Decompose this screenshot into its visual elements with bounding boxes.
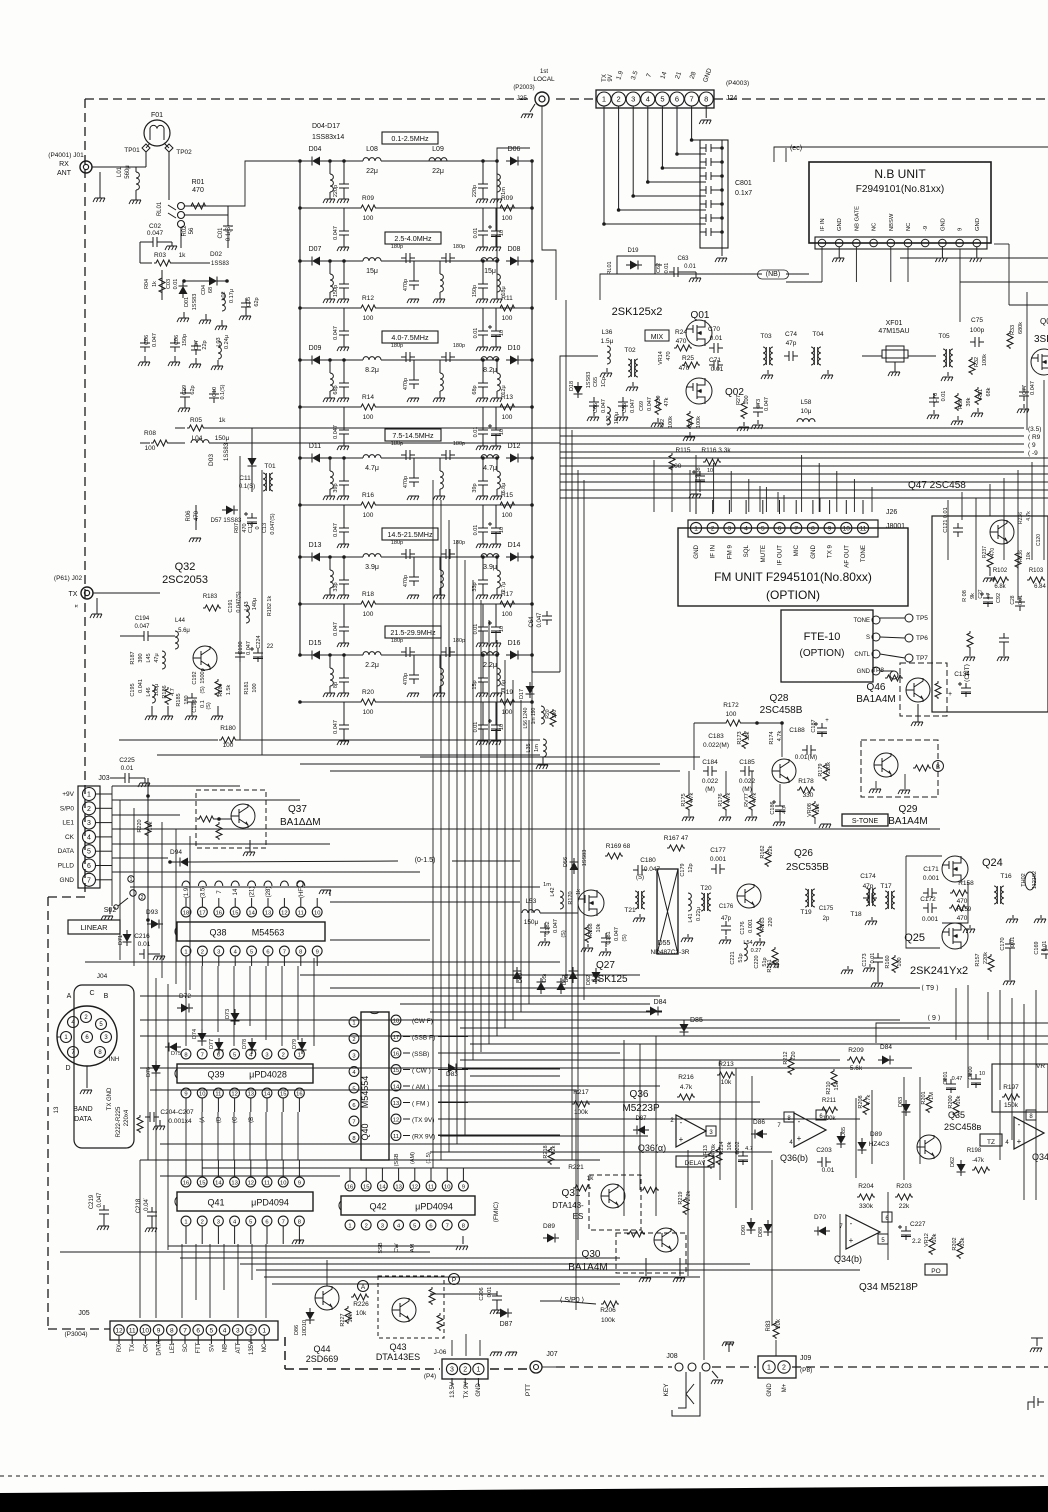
svg-text:0.01: 0.01 [173, 279, 179, 290]
svg-text:C92: C92 [996, 593, 1002, 603]
svg-text:0.047: 0.047 [647, 397, 653, 411]
svg-text:( -9: ( -9 [1028, 450, 1038, 457]
svg-text:0.022: 0.022 [739, 778, 756, 785]
svg-text:SQL: SQL [743, 544, 750, 557]
svg-text:0.047: 0.047 [601, 399, 607, 413]
wire right side verticals upper [947, 500, 949, 560]
svg-text:IF IN: IF IN [710, 545, 717, 558]
inductor series left 4.7μ [363, 455, 381, 458]
svg-text:1SS83: 1SS83 [224, 442, 230, 461]
svg-text:15: 15 [363, 1185, 369, 1191]
Q29 dashed box [861, 740, 938, 797]
wire filter row [300, 160, 308, 162]
svg-text:4: 4 [646, 95, 650, 104]
svg-text:8: 8 [298, 1220, 301, 1226]
svg-text:0.01: 0.01 [1018, 595, 1024, 605]
svg-text:FTE-10: FTE-10 [804, 631, 841, 643]
svg-text:0.047: 0.047 [333, 326, 339, 340]
svg-text:C220: C220 [754, 955, 760, 968]
filter band label box 0.1-2.5MHz [382, 132, 438, 144]
svg-text:D09: D09 [309, 345, 322, 352]
svg-text:10: 10 [280, 1181, 286, 1187]
svg-text:J8001: J8001 [886, 523, 905, 530]
svg-text:C74: C74 [785, 331, 797, 338]
svg-text:2SD669: 2SD669 [306, 1354, 339, 1364]
svg-text:9: 9 [316, 950, 319, 956]
svg-text:330k: 330k [859, 1203, 874, 1210]
svg-text:CK: CK [65, 834, 75, 841]
svg-text:100: 100 [502, 215, 513, 222]
wire Q39 outputs down [185, 1112, 187, 1160]
svg-text:(S): (S) [200, 686, 206, 694]
grounds IF strip [544, 938, 546, 941]
svg-text:4: 4 [744, 526, 748, 533]
svg-text:C12: C12 [248, 523, 254, 533]
svg-text:R167 47: R167 47 [664, 835, 689, 842]
svg-text:180p: 180p [391, 441, 403, 447]
svg-text:R14: R14 [362, 394, 374, 401]
svg-text:R13: R13 [501, 394, 513, 401]
svg-text:4.7μ: 4.7μ [365, 465, 379, 472]
ground stub right edge [1031, 1338, 1043, 1346]
svg-text:R179: R179 [818, 763, 824, 776]
svg-text:TP6: TP6 [916, 635, 928, 642]
svg-text:22k: 22k [899, 1203, 910, 1210]
svg-text:C75: C75 [971, 317, 983, 324]
wire filter row [300, 260, 308, 262]
svg-text:(ec): (ec) [790, 145, 802, 152]
svg-text:R182 1k: R182 1k [267, 596, 273, 617]
svg-text:R206: R206 [600, 1307, 616, 1314]
svg-text:5: 5 [233, 1053, 236, 1059]
svg-text:NB GATE: NB GATE [854, 206, 860, 231]
transistor Q44 2SD669 [315, 1286, 339, 1310]
svg-text:LE1: LE1 [62, 820, 74, 827]
capacitor series 1 [401, 352, 415, 362]
svg-text:R115: R115 [675, 447, 690, 454]
TZ box [980, 1134, 1002, 1146]
FET Q24 [942, 856, 968, 882]
svg-text:150p: 150p [182, 334, 188, 346]
svg-text:150p: 150p [333, 285, 339, 297]
wire below R180 [157, 754, 540, 756]
svg-text:(S): (S) [636, 875, 644, 881]
svg-text:R219: R219 [678, 1191, 684, 1204]
svg-text:Q32: Q32 [175, 561, 196, 573]
svg-text:R12: R12 [362, 295, 374, 302]
svg-text:TP02: TP02 [176, 149, 192, 156]
svg-text:0.01: 0.01 [138, 941, 151, 948]
svg-text:BA1A4M: BA1A4M [856, 694, 895, 705]
svg-text:Q25: Q25 [904, 932, 925, 944]
wire horizontal bundle low [460, 1059, 840, 1061]
svg-text:8: 8 [170, 1328, 174, 1335]
svg-text:100: 100 [363, 512, 374, 519]
svg-text:R236: R236 [1018, 550, 1024, 562]
svg-text:0.01: 0.01 [473, 525, 479, 536]
svg-text:470: 470 [990, 548, 996, 557]
svg-text:0.022(M): 0.022(M) [703, 742, 729, 749]
svg-text:(P61) J02: (P61) J02 [54, 575, 83, 582]
svg-text:⟨D: ⟨D [215, 1116, 222, 1123]
svg-text:PTT: PTT [525, 1384, 532, 1396]
svg-text:330: 330 [803, 792, 814, 799]
svg-text:C134: C134 [954, 671, 970, 678]
svg-text:Q41: Q41 [207, 1198, 224, 1208]
Q29 right resistor [913, 765, 931, 771]
IC Q41 uPD4094 [177, 1192, 313, 1211]
svg-text:(OPTION): (OPTION) [766, 588, 820, 602]
svg-text:R116 3.3k: R116 3.3k [701, 447, 731, 454]
svg-text:( R9: ( R9 [1028, 434, 1041, 441]
connector J07 PTT [530, 1361, 542, 1373]
transistor Q28 [772, 759, 796, 783]
svg-text:R02: R02 [182, 225, 188, 237]
svg-text:( CW ): ( CW ) [412, 1068, 431, 1075]
svg-text:12: 12 [393, 1118, 399, 1124]
svg-text:BAND: BAND [73, 1106, 92, 1113]
ground Q38 pin10 [329, 890, 331, 896]
svg-text:C69: C69 [639, 401, 645, 411]
svg-text:C224: C224 [256, 635, 262, 648]
svg-text:R07: R07 [234, 523, 240, 533]
svg-text:C188: C188 [789, 727, 805, 734]
capacitor array C801 0.1x7 [700, 140, 728, 248]
svg-text:C225: C225 [119, 757, 135, 764]
svg-text:1: 1 [87, 792, 91, 799]
svg-text:1k: 1k [576, 889, 582, 895]
svg-text:D88: D88 [758, 1227, 764, 1237]
svg-text:R157: R157 [975, 953, 981, 966]
svg-text:1m: 1m [543, 882, 551, 888]
svg-text:2: 2 [201, 950, 204, 956]
svg-text:FM 9: FM 9 [726, 544, 733, 559]
svg-text:13: 13 [231, 1181, 237, 1187]
transistor Q26 [737, 884, 761, 908]
svg-text:8: 8 [299, 950, 302, 956]
svg-text:C05: C05 [246, 297, 252, 307]
svg-text:C70: C70 [708, 326, 720, 333]
svg-text:R174: R174 [769, 731, 775, 744]
svg-text:0.01: 0.01 [473, 624, 479, 635]
svg-text:10: 10 [707, 468, 713, 474]
IC Q39 top pins [181, 1049, 191, 1059]
svg-text:R15: R15 [501, 492, 513, 499]
svg-text:3: 3 [631, 95, 635, 104]
svg-text:PLLD: PLLD [58, 863, 75, 870]
svg-text:(1.5): (1.5) [426, 1152, 432, 1163]
svg-text:D04: D04 [309, 146, 322, 153]
svg-text:Q34: Q34 [1032, 1152, 1048, 1162]
svg-text:(28): (28) [266, 887, 272, 898]
svg-text:TP01: TP01 [124, 147, 140, 154]
wire bus group below mixer to FM unit [560, 457, 1048, 459]
ground S02 [109, 908, 111, 914]
svg-text:+: + [679, 1135, 684, 1144]
wire filter output to Q27 [531, 672, 533, 913]
svg-text:2: 2 [249, 1328, 253, 1335]
svg-text:18: 18 [183, 911, 189, 917]
shunt capacitor right [478, 575, 488, 589]
svg-text:T16: T16 [1000, 873, 1012, 880]
svg-text:1: 1 [184, 950, 187, 956]
svg-text:15μ: 15μ [484, 268, 496, 275]
svg-text:J08: J08 [666, 1353, 677, 1360]
svg-text:L01: L01 [117, 166, 123, 177]
inductor series left 3.9μ [363, 554, 381, 557]
svg-text:9V: 9V [608, 74, 614, 81]
svg-text:C204-C207: C204-C207 [160, 1109, 194, 1116]
shunt inductor right L24 [497, 471, 500, 489]
S-TONE box [842, 814, 888, 826]
svg-text:1: 1 [476, 1367, 480, 1374]
wire NB top feed [774, 147, 1048, 162]
svg-text:1SS83: 1SS83 [586, 372, 592, 389]
svg-text:Q40: Q40 [360, 1123, 370, 1140]
svg-text:D79: D79 [292, 1039, 298, 1049]
svg-text:10: 10 [979, 1071, 985, 1077]
svg-text:Q29: Q29 [899, 804, 918, 815]
wire bias rail to left section [205, 427, 560, 429]
svg-text:J-06: J-06 [434, 1349, 447, 1356]
shunt cap mid [409, 276, 419, 290]
shunt capacitor left C22 [339, 279, 349, 293]
svg-text:R04: R04 [144, 279, 150, 289]
svg-text:Q43: Q43 [389, 1342, 406, 1352]
IC Q42 top pins [345, 1181, 355, 1191]
svg-text:8: 8 [811, 526, 815, 533]
svg-text:2.5-4.0MHz: 2.5-4.0MHz [394, 234, 432, 243]
wire NB unit pin drops [821, 247, 823, 282]
svg-text:GND: GND [837, 218, 843, 231]
svg-text:R 08: R 08 [962, 590, 968, 602]
svg-text:0.001: 0.001 [922, 916, 939, 923]
svg-text:5: 5 [210, 1328, 214, 1335]
svg-text:R212: R212 [783, 1051, 789, 1064]
svg-text:ANT: ANT [57, 170, 72, 177]
svg-text:100: 100 [502, 512, 513, 519]
svg-text:L41: L41 [688, 913, 694, 922]
svg-text:(AM): (AM) [410, 1152, 416, 1164]
svg-text:8: 8 [352, 1136, 355, 1142]
svg-text:C200: C200 [968, 1066, 974, 1079]
svg-text:Q24: Q24 [982, 857, 1003, 869]
svg-text:Q27: Q27 [596, 960, 615, 971]
svg-text:ND487C2-3R: ND487C2-3R [650, 949, 689, 956]
capacitor series 2 [441, 647, 455, 657]
svg-text:2SC458B: 2SC458B [760, 705, 803, 716]
ground C63 [683, 271, 696, 273]
svg-text:R236: R236 [1018, 512, 1024, 524]
svg-text:MIX: MIX [651, 334, 664, 341]
svg-text:J07: J07 [546, 1351, 557, 1358]
svg-text:TX: TX [69, 591, 78, 598]
svg-text:TP7: TP7 [916, 655, 928, 662]
svg-text:7: 7 [446, 1224, 449, 1230]
ground C204 [159, 1120, 161, 1126]
svg-text:100: 100 [502, 709, 513, 716]
svg-text:3.9μ: 3.9μ [365, 564, 379, 571]
svg-text:0.047: 0.047 [764, 397, 770, 411]
svg-text:0.001x4: 0.001x4 [168, 1118, 192, 1125]
svg-text:D73: D73 [225, 1009, 231, 1019]
svg-text:56: 56 [189, 227, 195, 234]
wire Q28 bias rail [694, 722, 724, 724]
shunt cap mid [409, 473, 419, 487]
ground at J02 [96, 598, 98, 614]
svg-text:8.2μ: 8.2μ [483, 367, 497, 374]
capacitor series 1 [401, 647, 415, 657]
svg-text:R09: R09 [501, 195, 513, 202]
svg-text:D08: D08 [508, 246, 521, 253]
svg-text:100: 100 [363, 414, 374, 421]
FET Q02 [686, 378, 712, 404]
wire bottom horizontal bundle [168, 1245, 460, 1247]
wire S/P0 line [540, 1301, 596, 1304]
svg-text:0.001: 0.001 [710, 856, 727, 863]
svg-text:C227: C227 [910, 1221, 926, 1228]
svg-text:C185: C185 [739, 759, 755, 766]
svg-text:KEY: KEY [663, 1383, 670, 1397]
svg-text:NC: NC [906, 223, 912, 231]
svg-text:12: 12 [115, 1328, 123, 1335]
svg-text:Q37: Q37 [288, 804, 307, 815]
svg-text:470k: 470k [711, 1144, 717, 1156]
svg-text:J25: J25 [517, 95, 528, 102]
svg-text:D02: D02 [210, 251, 222, 258]
svg-text:R175: R175 [681, 793, 687, 806]
svg-text:C186: C186 [770, 801, 776, 814]
svg-text:17: 17 [199, 911, 205, 917]
svg-text:Q28: Q28 [770, 693, 789, 704]
svg-text:CNTL: CNTL [854, 652, 870, 658]
svg-text:R20: R20 [362, 689, 374, 696]
mixer D55 ND487C2-3R [657, 869, 678, 954]
svg-text:0.1x7: 0.1x7 [735, 190, 752, 197]
svg-text:0.17μ: 0.17μ [229, 289, 235, 303]
svg-text:Q46: Q46 [867, 682, 886, 693]
svg-text:(21): (21) [250, 887, 256, 898]
svg-text:5.6μ: 5.6μ [178, 628, 190, 634]
svg-text:140μ: 140μ [252, 598, 258, 610]
shunt cap mid [409, 670, 419, 684]
svg-text:R204: R204 [858, 1183, 874, 1190]
svg-text:3: 3 [728, 526, 732, 533]
svg-text:68p: 68p [333, 385, 339, 394]
svg-text:C13: C13 [262, 523, 268, 533]
svg-text:C07: C07 [194, 340, 200, 350]
svg-text:C219: C219 [89, 1194, 95, 1209]
svg-text:D87: D87 [500, 1321, 513, 1328]
svg-text:T21: T21 [624, 907, 636, 914]
svg-text:6.8k: 6.8k [994, 584, 1006, 590]
svg-text:D84: D84 [654, 999, 667, 1006]
shunt inductor right L29 [497, 570, 500, 588]
N.B UNIT box [809, 162, 991, 243]
svg-text:470: 470 [676, 338, 687, 345]
svg-text:MUTE: MUTE [760, 545, 767, 563]
svg-text:14: 14 [215, 1181, 222, 1187]
wire filter row [300, 654, 308, 656]
svg-text:B: B [936, 765, 940, 771]
wire filter bank right rail [531, 161, 533, 672]
svg-text:8: 8 [462, 1224, 465, 1230]
transistor Q37 [231, 804, 255, 828]
svg-text:F01: F01 [151, 112, 163, 119]
svg-text:+9V: +9V [62, 791, 74, 798]
svg-text:(M): (M) [705, 786, 715, 793]
svg-text:0.047: 0.047 [333, 425, 339, 439]
svg-text:100p: 100p [970, 327, 985, 334]
svg-text:10: 10 [843, 526, 851, 533]
svg-text:N.B UNIT: N.B UNIT [874, 167, 926, 181]
svg-text:C221: C221 [730, 951, 736, 964]
FM UNIT box [687, 534, 883, 570]
svg-text:11: 11 [129, 1328, 136, 1335]
capacitor series 1 [401, 253, 415, 263]
svg-text:C203: C203 [816, 1147, 832, 1154]
svg-text:D77: D77 [209, 1039, 215, 1049]
svg-text:μPD4094: μPD4094 [251, 1198, 289, 1208]
svg-text:L44: L44 [175, 618, 186, 624]
svg-text:22: 22 [267, 644, 274, 650]
svg-text:Q36: Q36 [630, 1089, 649, 1100]
test point TP8 [890, 671, 898, 679]
svg-text:-: - [850, 1219, 853, 1228]
svg-text:7: 7 [352, 1120, 355, 1126]
svg-text:-: - [1018, 1120, 1021, 1129]
shunt capacitor right [478, 378, 488, 392]
svg-text:4.7μ: 4.7μ [483, 465, 497, 472]
wires J03 fanout [96, 793, 112, 795]
svg-text:1m: 1m [534, 744, 540, 752]
svg-text:7: 7 [690, 95, 694, 104]
grounds cluster [969, 649, 971, 656]
svg-text:D07: D07 [309, 246, 322, 253]
svg-text:-47k: -47k [972, 1158, 985, 1164]
svg-text:R25: R25 [682, 355, 694, 362]
svg-text:GND: GND [693, 544, 700, 558]
IC Q40 left pins [349, 1017, 359, 1027]
svg-text:3: 3 [381, 1224, 384, 1230]
svg-text:CK: CK [143, 1344, 149, 1352]
svg-text:2SC2053: 2SC2053 [162, 574, 208, 586]
svg-text:150μ: 150μ [524, 919, 539, 926]
svg-text:7: 7 [201, 1053, 204, 1059]
svg-text:4.7k: 4.7k [726, 793, 732, 804]
svg-text:M54563: M54563 [252, 928, 285, 938]
svg-text:C179: C179 [680, 863, 686, 876]
svg-text:220k: 220k [826, 762, 832, 774]
shunt ind mid [440, 373, 443, 391]
IC Q42 bottom pins [345, 1220, 355, 1230]
svg-text:1SS83x14: 1SS83x14 [312, 134, 344, 141]
svg-text:14: 14 [233, 888, 239, 895]
svg-text:(OPTION): (OPTION) [800, 648, 845, 659]
svg-text:( FM ): ( FM ) [412, 1101, 429, 1108]
resistor Q43 internal 1 [429, 1287, 435, 1305]
svg-text:10μ: 10μ [801, 408, 812, 415]
svg-text:100: 100 [502, 611, 513, 618]
connector J24 8-pin [596, 90, 714, 108]
svg-text:R24: R24 [675, 329, 687, 336]
ground Q46 [917, 704, 919, 722]
svg-text:47p: 47p [786, 340, 797, 347]
wire horizontal bundle mid [330, 901, 520, 903]
svg-text:Q26: Q26 [794, 848, 813, 859]
shunt capacitor right [478, 673, 488, 687]
svg-text:C194: C194 [135, 616, 150, 622]
